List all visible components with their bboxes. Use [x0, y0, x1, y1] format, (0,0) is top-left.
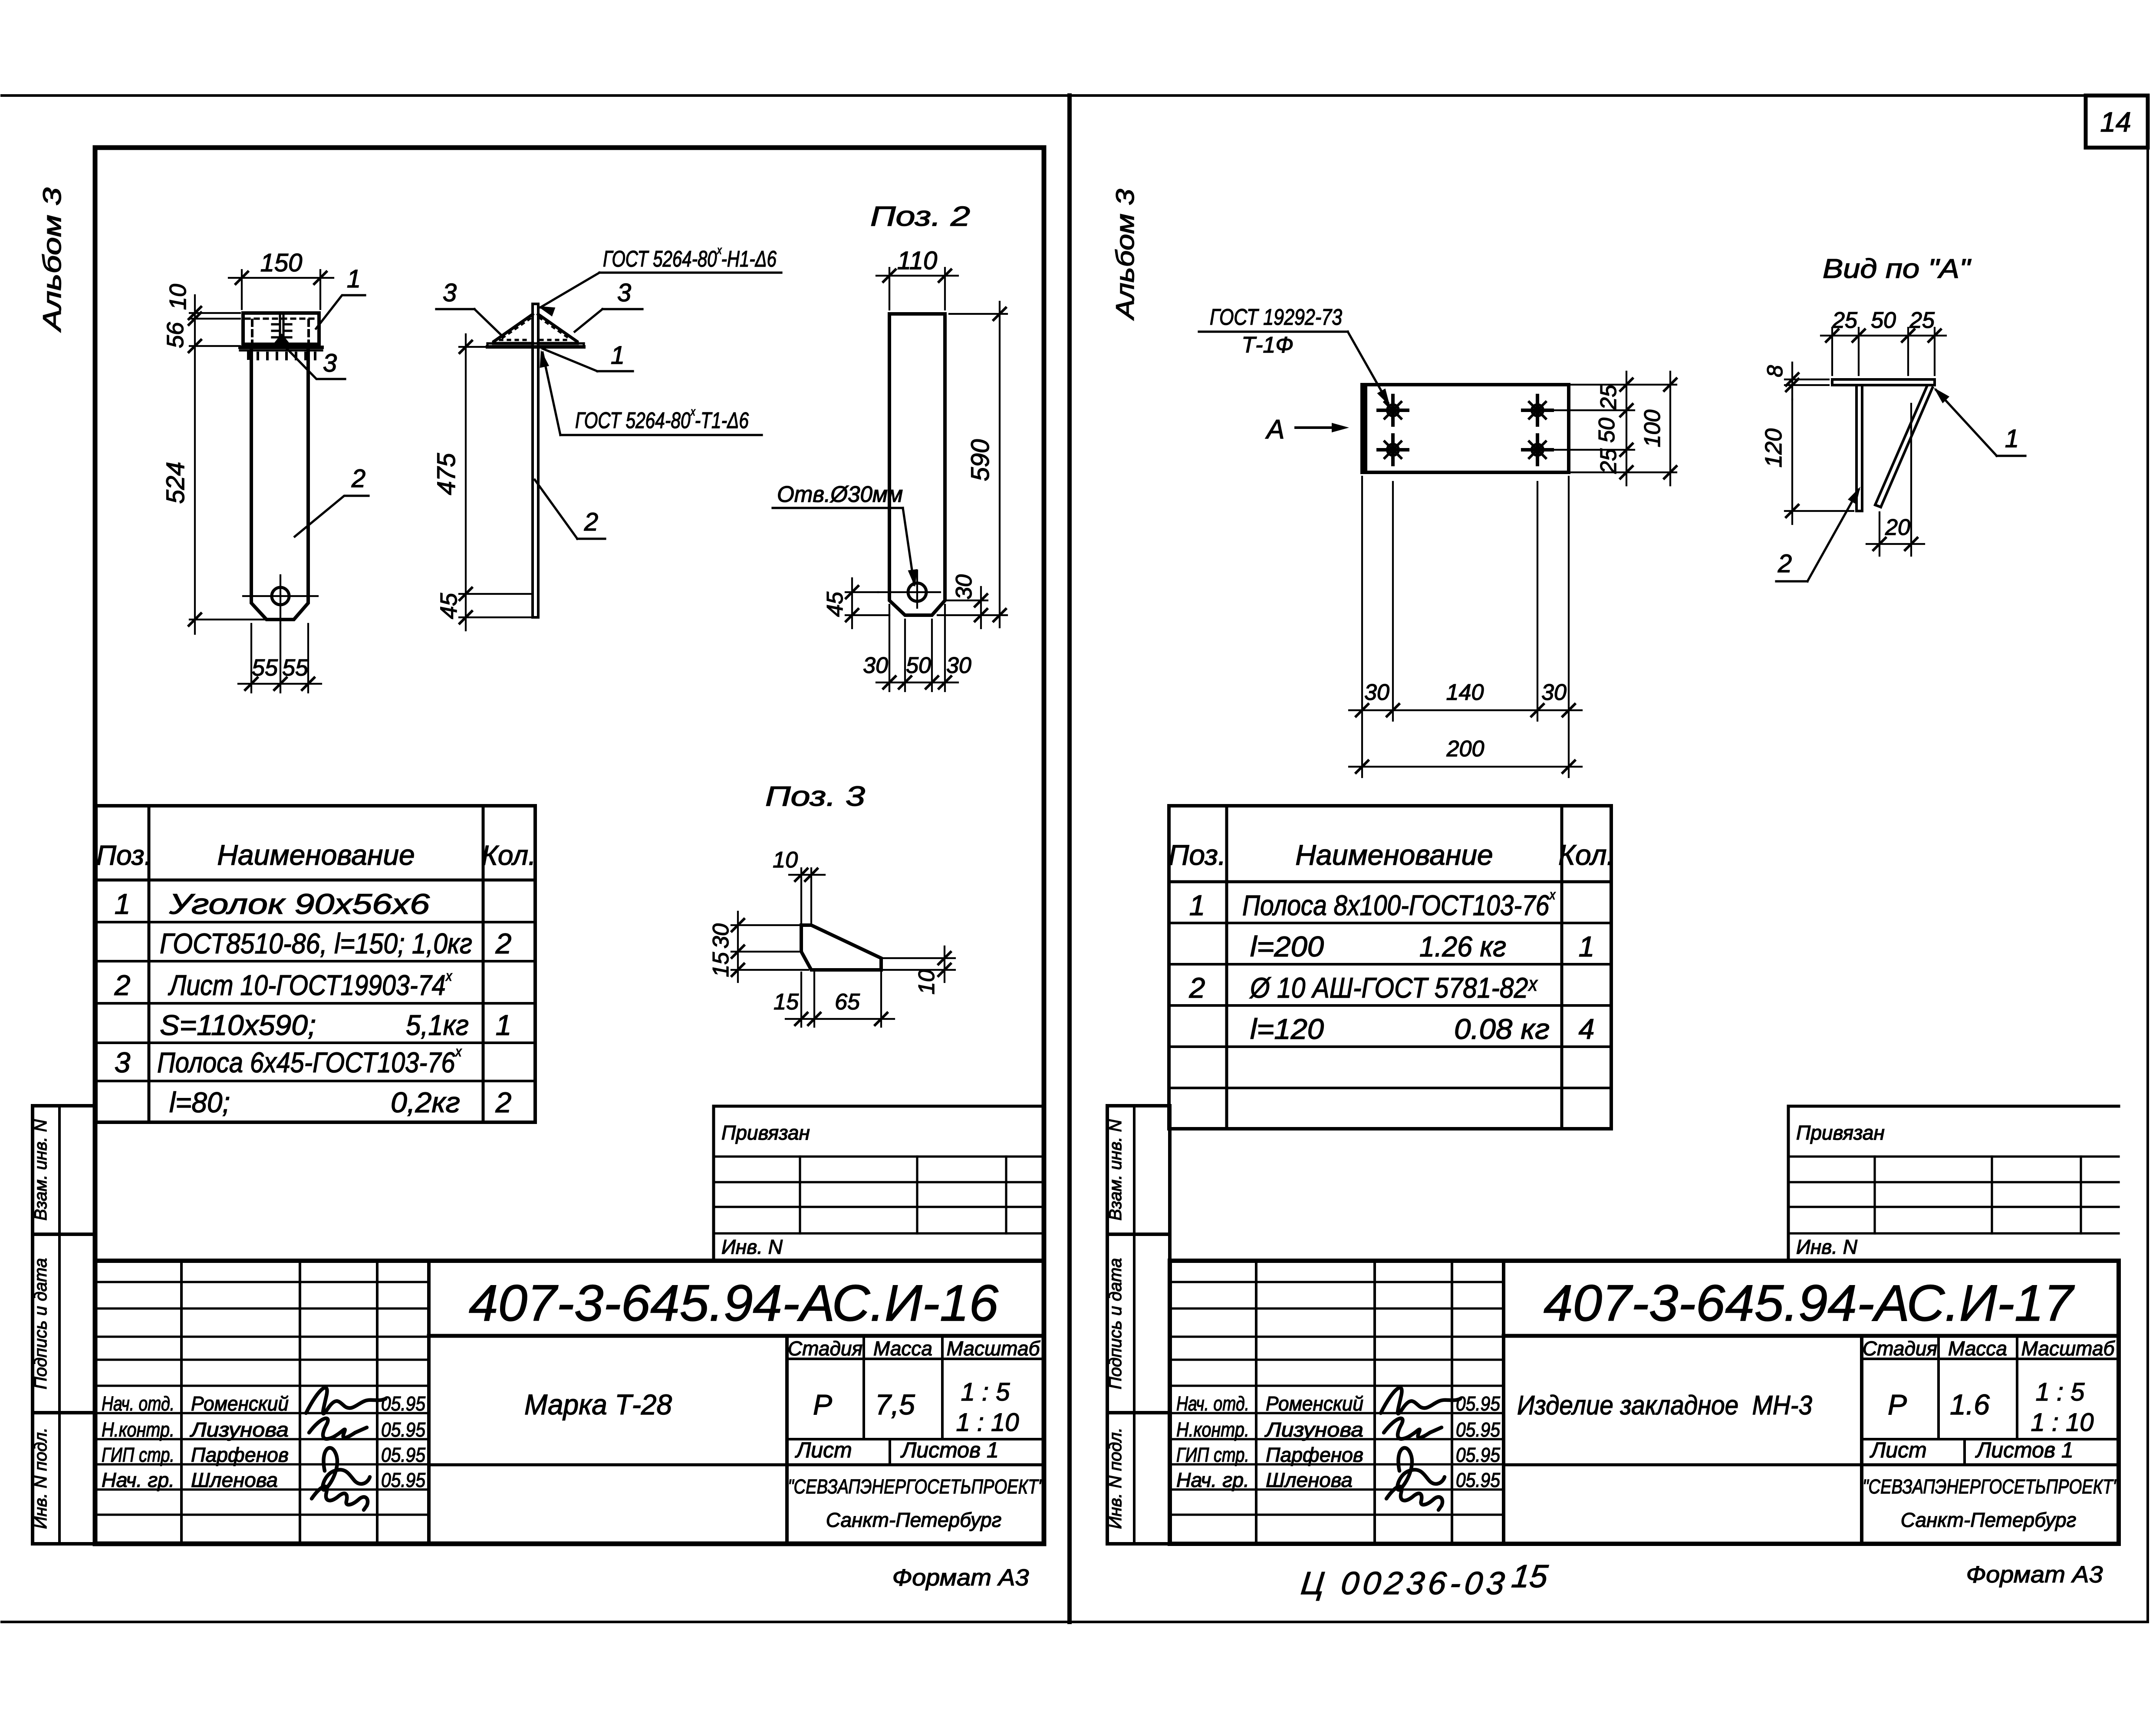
svg-text:Формат А3: Формат А3: [1966, 1562, 2103, 1588]
svg-text:110: 110: [897, 247, 937, 275]
svg-text:Кол.: Кол.: [481, 840, 536, 871]
pos3 dims 30 15 left: [708, 912, 808, 982]
svg-text:14: 14: [2100, 106, 2131, 138]
svg-text:2: 2: [351, 465, 365, 493]
view1 hole: [243, 575, 318, 623]
svg-text:Н.контр.: Н.контр.: [1176, 1418, 1249, 1441]
side stud vertical P2: [1856, 385, 1862, 511]
pos2 dim 45 left: [823, 578, 889, 628]
svg-text:1: 1: [496, 1009, 512, 1041]
svg-text:ГИП стр.: ГИП стр.: [102, 1444, 174, 1466]
side stud diagonal P2: [1875, 386, 1932, 507]
svg-text:3: 3: [617, 279, 631, 307]
view1 left dims 10 56 524: [161, 284, 265, 634]
sheet number box 14: [2086, 96, 2148, 148]
svg-text:Роменский: Роменский: [191, 1392, 289, 1415]
svg-text:5,1кг: 5,1кг: [406, 1009, 469, 1041]
svg-text:1: 1: [1579, 930, 1595, 962]
svg-text:140: 140: [1446, 680, 1484, 705]
svg-text:Поз. 3: Поз. 3: [765, 781, 866, 812]
svg-text:25: 25: [1596, 384, 1621, 410]
svg-text:30: 30: [863, 653, 888, 678]
svg-text:Альбом 3: Альбом 3: [1111, 189, 1139, 321]
svg-text:407-3-645.94-АС.И-17: 407-3-645.94-АС.И-17: [1544, 1275, 2075, 1332]
plan A view arrow: [1265, 415, 1349, 445]
svg-text:Уголок 90х56х6: Уголок 90х56х6: [169, 888, 430, 920]
svg-text:10: 10: [165, 284, 191, 310]
svg-text:30: 30: [1364, 680, 1389, 705]
svg-text:524: 524: [161, 462, 190, 504]
central divider between sheets: [1067, 96, 1072, 1622]
right sidebar labels: [1106, 1119, 1125, 1529]
svg-text:Инв. N: Инв. N: [1796, 1236, 1858, 1258]
pos2 dim 110: [876, 247, 958, 310]
scan top edge line: [2, 94, 2148, 97]
svg-text:ГОСТ 5264-80ˣ-Н1-Δ6: ГОСТ 5264-80ˣ-Н1-Δ6: [603, 244, 777, 272]
svg-text:2: 2: [584, 508, 598, 536]
svg-text:Шленова: Шленова: [1266, 1469, 1353, 1491]
svg-text:ГОСТ8510-86, l=150; 1,0кг: ГОСТ8510-86, l=150; 1,0кг: [160, 927, 472, 959]
left sheet frame: [95, 148, 1044, 1544]
title block texts left: [102, 1121, 1045, 1531]
svg-text:Лист 10-ГОСТ19903-74ˣ: Лист 10-ГОСТ19903-74ˣ: [168, 967, 453, 1001]
svg-text:Полоса 8х100-ГОСТ103-76ˣ: Полоса 8х100-ГОСТ103-76ˣ: [1242, 887, 1556, 921]
svg-text:05.95: 05.95: [1456, 1444, 1500, 1466]
title block texts right: [1176, 1121, 2120, 1531]
svg-text:l=120: l=120: [1250, 1013, 1324, 1045]
svg-text:1 : 10: 1 : 10: [2031, 1408, 2093, 1437]
pos2 plate outline: [889, 314, 945, 615]
svg-text:25: 25: [1832, 308, 1858, 333]
svg-text:1: 1: [347, 265, 361, 293]
svg-text:Шленова: Шленова: [191, 1469, 278, 1491]
svg-text:Лизунова: Лизунова: [1264, 1418, 1363, 1441]
pos2 hole: [878, 570, 940, 608]
svg-text:150: 150: [260, 249, 303, 277]
view2 leader 3 right: [575, 279, 642, 332]
svg-text:2: 2: [114, 969, 131, 1001]
svg-text:Р: Р: [1888, 1388, 1907, 1420]
svg-text:А: А: [1265, 415, 1284, 445]
svg-text:Лист: Лист: [1870, 1438, 1927, 1462]
side bar P1: [1832, 379, 1935, 385]
svg-text:Стадия: Стадия: [788, 1337, 862, 1360]
right parts table rows: [1189, 887, 1595, 1045]
svg-text:Масштаб: Масштаб: [2021, 1337, 2116, 1360]
view1 weld dots under flange: [247, 353, 250, 359]
svg-text:20: 20: [1885, 515, 1910, 540]
svg-text:Масштаб: Масштаб: [947, 1337, 1041, 1360]
view1 dim 150: [229, 249, 333, 309]
svg-text:05.95: 05.95: [381, 1444, 425, 1466]
svg-text:Подпись и дата: Подпись и дата: [1106, 1258, 1125, 1390]
svg-text:Стадия: Стадия: [1863, 1337, 1937, 1360]
svg-text:Взам. инв. N: Взам. инв. N: [31, 1119, 50, 1220]
svg-text:10: 10: [773, 847, 798, 873]
plan studs P2: [1378, 395, 1552, 465]
svg-text:55: 55: [282, 655, 309, 681]
svg-text:25: 25: [1596, 448, 1621, 474]
svg-text:1: 1: [611, 341, 625, 369]
svg-text:Санкт-Петербург: Санкт-Петербург: [826, 1509, 1002, 1531]
svg-text:1 : 5: 1 : 5: [961, 1378, 1011, 1406]
svg-text:Поз. 2: Поз. 2: [870, 201, 970, 232]
svg-text:3: 3: [115, 1046, 131, 1078]
svg-text:Ø 10 АШ-ГОСТ 5781-82ˣ: Ø 10 АШ-ГОСТ 5781-82ˣ: [1249, 972, 1538, 1004]
svg-text:50: 50: [1871, 308, 1896, 333]
svg-text:1: 1: [115, 888, 131, 920]
svg-text:3: 3: [323, 349, 337, 377]
pos2 dim 590: [938, 302, 1007, 627]
handwritten signatures right: [1381, 1388, 1460, 1510]
plan plate P1: [1362, 385, 1569, 472]
svg-text:1 : 5: 1 : 5: [2036, 1378, 2085, 1406]
view1 leader 1: [316, 265, 365, 329]
svg-text:Инв. N подл.: Инв. N подл.: [1106, 1427, 1125, 1529]
svg-text:ГОСТ 5264-80ˣ-Т1-Δ6: ГОСТ 5264-80ˣ-Т1-Δ6: [575, 405, 749, 433]
svg-text:120: 120: [1761, 428, 1787, 468]
svg-text:1.26 кг: 1.26 кг: [1419, 930, 1506, 962]
svg-text:0.08 кг: 0.08 кг: [1454, 1013, 1550, 1045]
svg-text:05.95: 05.95: [381, 1418, 425, 1441]
svg-text:Вид по "А": Вид по "А": [1823, 254, 1972, 284]
svg-text:2: 2: [495, 927, 512, 959]
side leader 1: [1930, 384, 2025, 456]
svg-text:Взам. инв. N: Взам. инв. N: [1106, 1119, 1125, 1220]
svg-text:Листов 1: Листов 1: [900, 1438, 999, 1462]
plan bottom dims 30 140 30 200: [1349, 477, 1582, 777]
svg-text:Инв. N: Инв. N: [721, 1236, 783, 1258]
svg-text:Масса: Масса: [1948, 1337, 2007, 1360]
svg-text:Нач. гр.: Нач. гр.: [1176, 1469, 1249, 1491]
view1 bottom dim 55 55: [238, 624, 321, 692]
svg-text:7,5: 7,5: [875, 1388, 915, 1420]
svg-text:2: 2: [1189, 972, 1205, 1004]
svg-text:25: 25: [1909, 308, 1935, 333]
svg-text:100: 100: [1640, 410, 1665, 448]
svg-text:3: 3: [443, 279, 457, 307]
view2 leader 1: [543, 341, 633, 371]
pos2 dim 30 right: [946, 574, 987, 628]
svg-text:1: 1: [1189, 889, 1205, 921]
left sidebar boxes: [33, 1106, 95, 1544]
view2 gusset P3 right: [538, 314, 577, 343]
svg-text:4: 4: [1579, 1013, 1595, 1045]
svg-text:407-3-645.94-АС.И-16: 407-3-645.94-АС.И-16: [469, 1275, 998, 1332]
svg-text:Парфенов: Парфенов: [1266, 1444, 1363, 1466]
view2 dims 475 45: [432, 334, 533, 630]
left parts table grid: [96, 806, 535, 1122]
right sidebar boxes: [1107, 1106, 1170, 1544]
pos3 gusset outline: [801, 925, 881, 970]
svg-text:Отв.Ø30мм: Отв.Ø30мм: [777, 482, 903, 507]
svg-text:Изделие закладное МН-3: Изделие закладное МН-3: [1517, 1391, 1812, 1420]
svg-text:05.95: 05.95: [381, 1392, 425, 1415]
svg-text:05.95: 05.95: [1456, 1469, 1500, 1491]
svg-text:15: 15: [1510, 1558, 1550, 1594]
svg-text:05.95: 05.95: [1456, 1392, 1500, 1415]
svg-text:Кол.: Кол.: [1558, 839, 1615, 871]
left parts table rows text: [114, 888, 512, 1118]
view2 plate P2 side: [533, 304, 538, 617]
pos2 bottom dims 30 50 30: [863, 605, 971, 691]
svg-text:Т-1Ф: Т-1Ф: [1241, 333, 1293, 358]
svg-text:475: 475: [432, 453, 461, 495]
side leader 2: [1776, 484, 1865, 581]
svg-text:10: 10: [914, 969, 939, 995]
svg-text:Марка Т-28: Марка Т-28: [524, 1388, 672, 1420]
svg-text:Лизунова: Лизунова: [190, 1418, 289, 1441]
svg-text:45: 45: [823, 591, 848, 617]
svg-text:Н.контр.: Н.контр.: [102, 1418, 174, 1441]
view1 leader 2: [295, 465, 369, 537]
svg-text:Подпись и дата: Подпись и дата: [31, 1258, 50, 1390]
svg-text:1: 1: [2005, 425, 2019, 453]
svg-text:590: 590: [966, 439, 994, 481]
svg-text:30: 30: [1541, 680, 1567, 705]
svg-text:Роменский: Роменский: [1266, 1392, 1363, 1415]
svg-text:S=110х590;: S=110х590;: [160, 1009, 316, 1041]
svg-text:ГОСТ 19292-73: ГОСТ 19292-73: [1210, 305, 1342, 330]
svg-text:l=200: l=200: [1250, 930, 1324, 962]
side dim 8: [1763, 363, 1829, 399]
svg-text:15: 15: [774, 989, 799, 1015]
svg-text:Полоса 6х45-ГОСТ103-76ˣ: Полоса 6х45-ГОСТ103-76ˣ: [157, 1043, 462, 1078]
scan bottom edge line: [2, 1621, 2148, 1623]
svg-text:Альбом 3: Альбом 3: [38, 188, 66, 333]
svg-text:50: 50: [906, 653, 931, 678]
svg-text:Формат А3: Формат А3: [892, 1565, 1029, 1591]
svg-text:0,2кг: 0,2кг: [391, 1086, 460, 1118]
view2 angle flange: [487, 343, 584, 347]
view1 angle bottom flange lines: [240, 347, 322, 350]
svg-text:Привязан: Привязан: [721, 1121, 810, 1144]
svg-text:1 : 10: 1 : 10: [956, 1408, 1019, 1437]
svg-text:Листов 1: Листов 1: [1975, 1438, 2074, 1462]
svg-text:ГИП стр.: ГИП стр.: [1176, 1444, 1249, 1466]
svg-text:Наименование: Наименование: [1295, 839, 1493, 871]
svg-text:Поз.: Поз.: [96, 840, 152, 871]
svg-text:05.95: 05.95: [1456, 1418, 1500, 1441]
view1 angle P1 (section box): [243, 313, 319, 344]
svg-text:Ц 00236-03: Ц 00236-03: [1299, 1565, 1510, 1601]
svg-text:2: 2: [1777, 550, 1792, 578]
svg-text:Инв. N подл.: Инв. N подл.: [31, 1427, 50, 1529]
svg-text:30: 30: [708, 923, 734, 949]
svg-text:Парфенов: Парфенов: [191, 1444, 289, 1466]
pos3 dim 10 top: [773, 847, 825, 923]
view1 leader 3: [284, 346, 345, 379]
svg-text:Нач. отд.: Нач. отд.: [102, 1392, 174, 1415]
right parts table grid: [1169, 806, 1611, 1129]
title block grid (left page, reused for right): [95, 1106, 1044, 1544]
handwritten signatures left: [306, 1388, 385, 1510]
svg-text:Нач. отд.: Нач. отд.: [1176, 1392, 1249, 1415]
left parts table header text: [96, 839, 536, 871]
svg-text:200: 200: [1446, 736, 1485, 761]
view2 leader 2: [535, 480, 605, 539]
svg-text:l=80;: l=80;: [169, 1086, 230, 1118]
pos2 hole label: [773, 482, 920, 588]
weld spec label T1: [536, 349, 762, 435]
svg-text:Лист: Лист: [795, 1438, 852, 1462]
svg-text:15: 15: [708, 952, 734, 977]
svg-text:Наименование: Наименование: [217, 839, 415, 871]
view2 leader 3 left: [436, 279, 500, 334]
svg-text:Р: Р: [813, 1388, 832, 1420]
stud spec label GOST 19292-73 T-1F: [1199, 305, 1394, 409]
svg-text:Привязан: Привязан: [1796, 1121, 1885, 1144]
view1 plate P2: [251, 350, 308, 620]
svg-text:Масса: Масса: [873, 1337, 932, 1360]
svg-text:45: 45: [436, 593, 462, 619]
svg-text:"СЕВЗАПЭНЕРГОСЕТЬПРОЕКТ": "СЕВЗАПЭНЕРГОСЕТЬПРОЕКТ": [788, 1475, 1045, 1498]
svg-text:8: 8: [1763, 365, 1787, 377]
svg-text:65: 65: [835, 989, 860, 1015]
svg-text:05.95: 05.95: [381, 1469, 425, 1491]
weld spec label N1: [536, 244, 781, 316]
pos3 dim 10 right: [884, 946, 955, 995]
view1 weld marks on angle: [248, 313, 316, 344]
svg-text:"СЕВЗАПЭНЕРГОСЕТЬПРОЕКТ": "СЕВЗАПЭНЕРГОСЕТЬПРОЕКТ": [1863, 1475, 2120, 1498]
svg-text:30: 30: [946, 653, 971, 678]
view2 gusset P3 left: [494, 314, 533, 343]
scan right edge line: [2146, 96, 2149, 1622]
svg-text:2: 2: [495, 1086, 512, 1118]
svg-text:1.6: 1.6: [1950, 1388, 1990, 1420]
side dim 20: [1866, 404, 1924, 556]
svg-text:Поз.: Поз.: [1169, 839, 1226, 871]
svg-text:30: 30: [951, 574, 977, 600]
svg-text:55: 55: [252, 655, 278, 681]
svg-text:Нач. гр.: Нач. гр.: [102, 1469, 174, 1491]
pos3 bottom dims 15 65: [774, 972, 894, 1027]
svg-text:56: 56: [162, 322, 188, 348]
side dim 120: [1761, 399, 1853, 524]
right parts table header: [1169, 839, 1615, 871]
svg-text:Санкт-Петербург: Санкт-Петербург: [1901, 1509, 2077, 1531]
side top dims 25 50 25: [1821, 308, 1946, 375]
svg-text:50: 50: [1594, 418, 1619, 443]
plan dims right 25 50 25 100: [1550, 372, 1676, 485]
